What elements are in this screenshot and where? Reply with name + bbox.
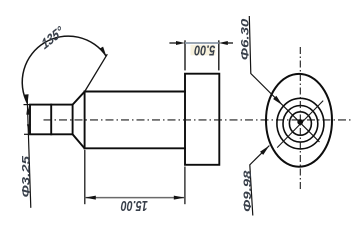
svg-text:Φ9.98: Φ9.98 [241,170,253,212]
svg-text:15.00: 15.00 [120,197,148,214]
svg-text:Φ3.25: Φ3.25 [20,155,32,197]
svg-text:5.00: 5.00 [194,42,216,59]
svg-text:135°: 135° [39,22,65,53]
svg-text:Φ6.30: Φ6.30 [239,18,251,60]
